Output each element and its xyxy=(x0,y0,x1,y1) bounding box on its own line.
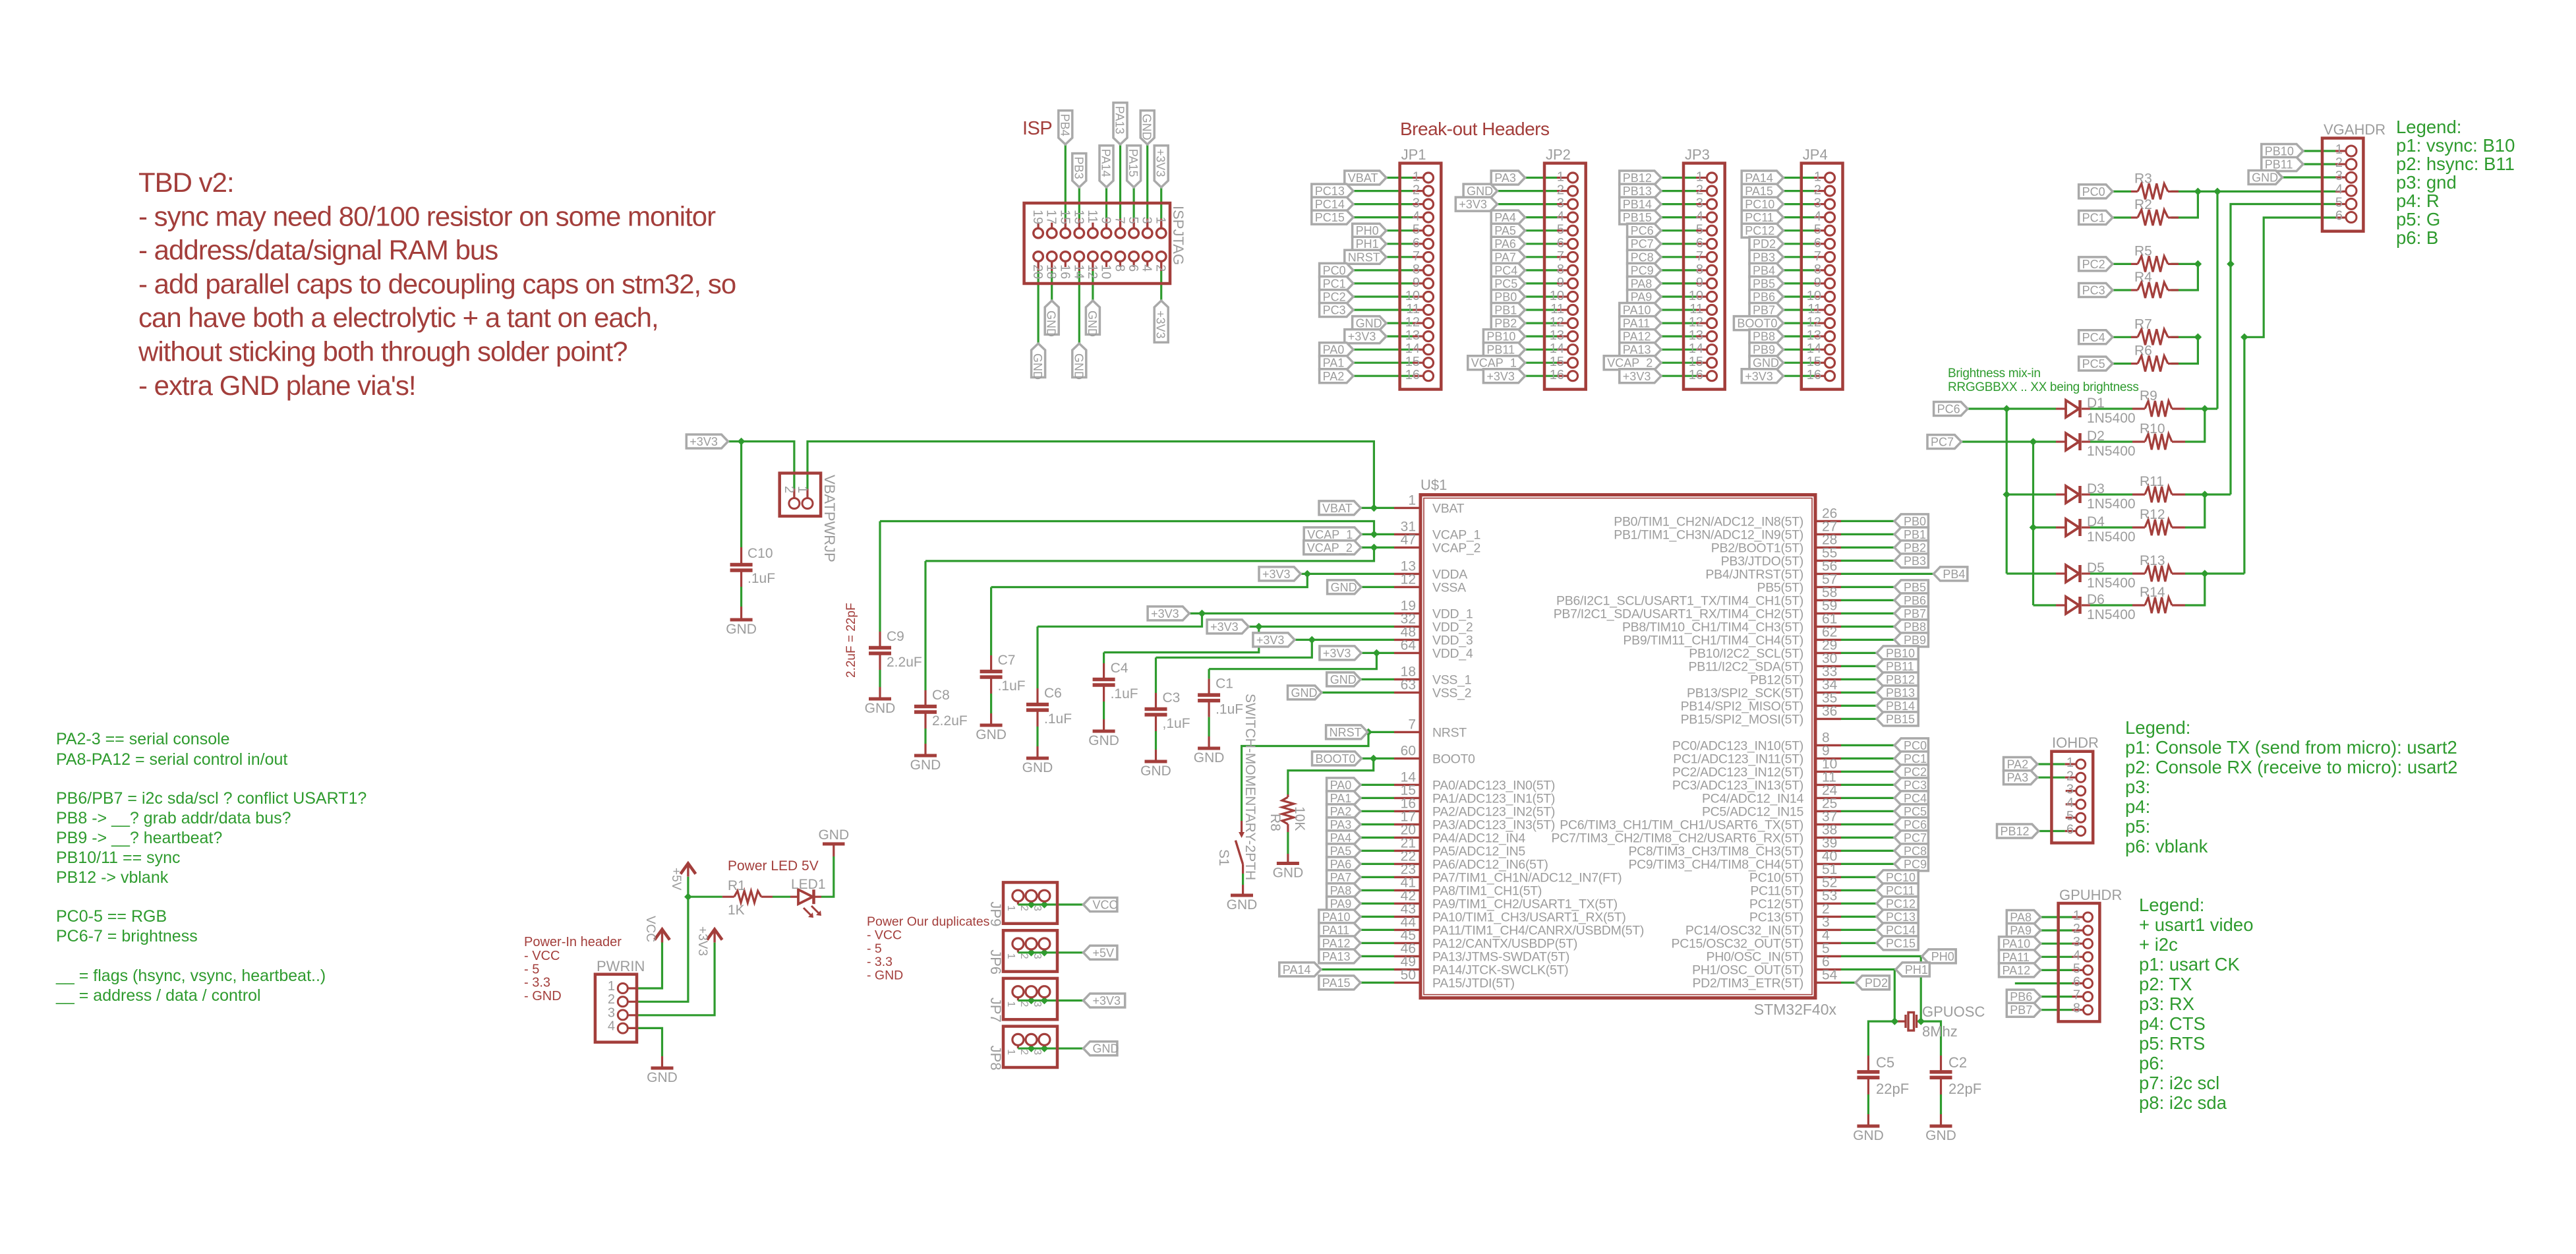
capacitor C7 .1uF xyxy=(980,653,1026,694)
wire PA8 to U$1 xyxy=(1361,889,1394,891)
svg-text:PB1: PB1 xyxy=(1904,528,1926,541)
svg-text:3: 3 xyxy=(1696,196,1703,211)
wire JP3 pin 11 net PA10 xyxy=(1661,309,1707,311)
svg-text:PA11: PA11 xyxy=(2003,951,2030,964)
svg-text:8: 8 xyxy=(1557,262,1564,277)
svg-text:JP4: JP4 xyxy=(1803,146,1828,163)
svg-text:PB13/SPI2_SCK(5T): PB13/SPI2_SCK(5T) xyxy=(1687,686,1803,700)
wire R5 output to junction xyxy=(2171,263,2198,265)
svg-text:GND: GND xyxy=(1093,1042,1119,1056)
net flag PB12 (U$1 right) xyxy=(1877,672,1918,686)
junctions JP6 pins xyxy=(1028,949,1049,957)
junction G channel tap xyxy=(2227,260,2235,268)
svg-text:JP7: JP7 xyxy=(987,998,1004,1023)
svg-text:+3V3: +3V3 xyxy=(1323,647,1351,660)
svg-text:5: 5 xyxy=(1126,217,1140,224)
svg-text:NRST: NRST xyxy=(1330,726,1362,739)
wire ISP pin 3 to GND flag xyxy=(1146,144,1148,228)
net flag PA2 (U$1) xyxy=(1327,804,1361,818)
net flag PC15 (JP1 pin 4) xyxy=(1312,210,1353,224)
junctions JP7 pins xyxy=(1028,997,1049,1005)
svg-text:10: 10 xyxy=(1550,289,1564,303)
svg-text:PC0-5 == RGB: PC0-5 == RGB xyxy=(56,907,167,926)
svg-text:PH1: PH1 xyxy=(1356,237,1379,251)
svg-text:p6: vblank: p6: vblank xyxy=(2125,836,2208,856)
svg-text:PA3: PA3 xyxy=(1330,818,1352,831)
junction PC7/D4 tap xyxy=(2030,523,2037,531)
svg-text:PA3: PA3 xyxy=(2007,771,2029,785)
svg-text:without sticking both through: without sticking both through solder poi… xyxy=(138,336,628,367)
junctions JP8 pins xyxy=(1028,1044,1049,1052)
svg-text:PC0/ADC123_IN10(5T): PC0/ADC123_IN10(5T) xyxy=(1672,738,1803,753)
net flag PA10 (JP3 pin 11) xyxy=(1620,303,1661,317)
svg-text:PA0: PA0 xyxy=(1330,779,1352,792)
svg-text:PC10: PC10 xyxy=(1886,871,1916,884)
svg-text:9: 9 xyxy=(1557,276,1564,290)
ground GND (S1) xyxy=(1227,885,1258,912)
svg-text:R5: R5 xyxy=(2134,243,2152,258)
net flag GND (ISP pin 14) xyxy=(1072,343,1086,380)
wire JP8 bus to GND xyxy=(1018,1045,1083,1048)
ground GND (C1) xyxy=(1194,736,1225,765)
net flag +3V3 (JP4 pin 16) xyxy=(1742,369,1783,383)
wire JP2 pin 4 net PA4 xyxy=(1525,216,1567,218)
net flag PB7 (U$1 right) xyxy=(1894,607,1928,620)
net flag PA13 (U$1) xyxy=(1319,949,1361,963)
wire PC4 to R7 xyxy=(2113,336,2131,338)
svg-text:14: 14 xyxy=(1689,342,1703,356)
svg-text:2: 2 xyxy=(1018,953,1030,959)
svg-text:GND: GND xyxy=(976,727,1007,742)
net flag PC8 (U$1 right) xyxy=(1894,844,1928,858)
svg-text:2: 2 xyxy=(608,992,615,1007)
svg-text:PD2: PD2 xyxy=(1753,237,1776,251)
svg-text:PB5: PB5 xyxy=(1904,581,1926,594)
net flag GND (VSSA) xyxy=(1328,580,1361,594)
svg-text:GND: GND xyxy=(1022,760,1053,775)
svg-text:6: 6 xyxy=(1413,236,1420,251)
svg-text:1: 1 xyxy=(608,979,615,994)
wire ISP pin 15 to PB4 flag xyxy=(1065,144,1067,228)
net flag +3V3 (battery jumper) xyxy=(686,434,728,448)
svg-text:C1: C1 xyxy=(1215,676,1233,692)
svg-text:3: 3 xyxy=(1814,196,1821,211)
wire R channel vertical (to diode mix R9/R10) xyxy=(2216,191,2218,409)
net flag PB12 (JP3 pin 1) xyxy=(1620,171,1661,185)
net flag PA9 (U$1) xyxy=(1327,897,1361,911)
wire JP4 pin 15 net GND xyxy=(1783,362,1825,364)
net flag PB13 (U$1 right) xyxy=(1877,686,1918,700)
pin names U$1 PB0-PB15 xyxy=(1554,506,1838,727)
svg-text:C9: C9 xyxy=(887,629,904,644)
svg-text:1: 1 xyxy=(1005,953,1016,959)
ground GND (C2) xyxy=(1925,1114,1956,1143)
wire ISP pin 2 to +3V3 flag xyxy=(1160,262,1162,301)
svg-text:p2: Console RX (receive to mic: p2: Console RX (receive to micro): usart… xyxy=(2125,757,2457,777)
wire JP4 pin 2 net PA15 xyxy=(1783,190,1825,192)
svg-text:JP6: JP6 xyxy=(987,949,1004,974)
net flag VBAT (U$1 pin 1) xyxy=(1319,501,1361,515)
wire JP4 pin 5 net PC12 xyxy=(1783,229,1825,231)
svg-text:2: 2 xyxy=(1413,183,1420,198)
wire JP1 pin 1 net VBAT xyxy=(1386,177,1423,179)
wire NRST net (flag to pin and down to S1) xyxy=(1242,732,1394,821)
wire JP2 pin 8 net PC4 xyxy=(1525,269,1567,271)
svg-text:PB6/PB7 = i2c sda/scl ? confli: PB6/PB7 = i2c sda/scl ? conflict USART1? xyxy=(56,789,366,808)
svg-text:R7: R7 xyxy=(2134,316,2152,332)
connector VBATPWRJP (battery power jumper) xyxy=(780,473,838,562)
wire R14 output joins R13 xyxy=(2185,574,2205,605)
diode D2 1N5400 xyxy=(2056,429,2136,459)
svg-text:PA15: PA15 xyxy=(1127,149,1140,177)
svg-text:2: 2 xyxy=(782,486,796,493)
svg-text:PC15/OSC32_OUT(5T): PC15/OSC32_OUT(5T) xyxy=(1672,936,1804,951)
svg-text:PB8/TIM10_CH1/TIM4_CH3(5T): PB8/TIM10_CH1/TIM4_CH3(5T) xyxy=(1622,620,1803,634)
svg-text:PB11: PB11 xyxy=(2265,158,2293,171)
wire +3V3 to VBATPWRJP pin 2 and C10 xyxy=(728,442,794,498)
svg-text:S1: S1 xyxy=(1216,849,1231,866)
svg-text:1: 1 xyxy=(1408,493,1416,508)
net flag PC5 (JP2 pin 9) xyxy=(1491,276,1525,290)
note Power Our duplicates (red) xyxy=(867,914,990,982)
connector GPUHDR (GPU header) xyxy=(2059,887,2122,1021)
svg-text:63: 63 xyxy=(1401,677,1416,692)
svg-text:PC3: PC3 xyxy=(1904,779,1927,792)
wire PB10 to VGAHDR pin 1 xyxy=(2303,150,2346,152)
svg-text:p2: hsync: B11: p2: hsync: B11 xyxy=(2396,154,2515,174)
svg-text:4: 4 xyxy=(1557,210,1564,224)
net flag +3V3 (JP1 pin 13) xyxy=(1345,330,1386,343)
connector JP7 (power jumper) xyxy=(987,978,1057,1023)
resistor R10 xyxy=(2132,421,2185,450)
svg-text:64: 64 xyxy=(1401,638,1417,653)
svg-text:PB9 -> __? heartbeat?: PB9 -> __? heartbeat? xyxy=(56,829,222,847)
svg-text:4: 4 xyxy=(1814,210,1821,224)
svg-text:1N5400: 1N5400 xyxy=(2087,607,2136,622)
pin numbers ISP top row 19..1 xyxy=(1030,210,1168,224)
svg-text:PB14/SPI2_MISO(5T): PB14/SPI2_MISO(5T) xyxy=(1681,699,1803,713)
wire PB14 from U$1 xyxy=(1841,705,1877,707)
svg-text:3: 3 xyxy=(608,1005,615,1020)
svg-text:PA8: PA8 xyxy=(1631,277,1653,290)
wire R6 output up to junction xyxy=(2171,337,2198,363)
wire JP4 pin 4 net PC11 xyxy=(1783,216,1825,218)
net flag PA11 (GPUHDR) xyxy=(1999,950,2041,964)
svg-text:GND: GND xyxy=(2252,171,2278,185)
svg-text:PB5(5T): PB5(5T) xyxy=(1757,580,1803,595)
svg-text:LED1: LED1 xyxy=(791,877,826,892)
svg-text:R10: R10 xyxy=(2140,421,2165,436)
net flag PC8 (JP3 pin 7) xyxy=(1627,250,1661,264)
svg-text:12: 12 xyxy=(1085,264,1099,279)
svg-text:VDDA: VDDA xyxy=(1432,567,1467,582)
junction VDD_4 +3V3 xyxy=(1373,649,1381,657)
svg-text:11: 11 xyxy=(1550,302,1564,316)
svg-text:15: 15 xyxy=(1689,355,1703,369)
net flag PC1 (U$1 right) xyxy=(1894,752,1928,765)
wire JP4 pin 14 net PB9 xyxy=(1783,349,1825,351)
svg-text:8: 8 xyxy=(1696,262,1703,277)
wire PB10 from U$1 xyxy=(1841,652,1877,654)
pin numbers IOHDR 1-6 xyxy=(2066,756,2074,837)
svg-text:+3V3: +3V3 xyxy=(1262,568,1291,581)
svg-text:PC5: PC5 xyxy=(1494,277,1517,290)
svg-text:D1: D1 xyxy=(2087,396,2105,411)
net flag PB12 (IOHDR) xyxy=(1997,824,2039,838)
svg-text:p3: gnd: p3: gnd xyxy=(2396,172,2457,193)
svg-text:- GND: - GND xyxy=(524,989,562,1003)
svg-text:PA7/TIM1_CH1N/ADC12_IN7(FT): PA7/TIM1_CH1N/ADC12_IN7(FT) xyxy=(1432,870,1622,885)
pin numbers PWRIN 1-4 xyxy=(608,979,615,1034)
svg-text:PB4/JNTRST(5T): PB4/JNTRST(5T) xyxy=(1705,567,1803,582)
net flag PA7 (JP2 pin 7) xyxy=(1491,250,1525,264)
net flag PB6 (GPUHDR) xyxy=(2006,990,2040,1003)
svg-text:Legend:: Legend: xyxy=(2396,117,2461,137)
wire JP2 pin 16 net +3V3 xyxy=(1525,375,1567,377)
svg-text:PA9/TIM1_CH2/USART1_TX(5T): PA9/TIM1_CH2/USART1_TX(5T) xyxy=(1432,897,1618,911)
svg-text:p6: B: p6: B xyxy=(2396,227,2438,248)
svg-text:Power Our duplicates: Power Our duplicates xyxy=(867,914,990,929)
svg-text:p5: RTS: p5: RTS xyxy=(2139,1033,2205,1054)
net flag PB3 (U$1 right) xyxy=(1894,554,1928,568)
svg-text:9: 9 xyxy=(1413,276,1420,290)
svg-text:47: 47 xyxy=(1401,532,1416,547)
capacitor C10 .1uF xyxy=(730,546,775,587)
svg-text:R2: R2 xyxy=(2134,197,2152,212)
svg-text:PA9: PA9 xyxy=(1631,291,1653,304)
net flag PC10 (U$1 right) xyxy=(1877,870,1918,884)
svg-text:PB12(5T): PB12(5T) xyxy=(1750,672,1803,687)
net flag PH1 xyxy=(1896,963,1929,976)
ground GND (C4) xyxy=(1088,719,1119,748)
net flag PA14 (ISP pin 9) xyxy=(1099,146,1114,187)
net flag PA4 (U$1) xyxy=(1327,831,1361,845)
net flag PA13 (JP3 pin 14) xyxy=(1620,343,1661,357)
resistor R3 xyxy=(2131,171,2179,199)
svg-text:can have both a electrolytic +: can have both a electrolytic + a tant on… xyxy=(138,302,659,333)
wire PWRIN pin3 to +3V3 xyxy=(628,943,715,1015)
svg-text:PH0: PH0 xyxy=(1356,224,1379,237)
svg-text:+3V3: +3V3 xyxy=(1154,311,1167,339)
svg-text:- extra GND plane via's!: - extra GND plane via's! xyxy=(138,370,416,401)
svg-text:PB3: PB3 xyxy=(1904,554,1926,568)
net flag BOOT0 (JP4 pin 12) xyxy=(1734,316,1783,330)
svg-text:12: 12 xyxy=(1405,315,1420,330)
wire VDD_4 net (C1 to U$1 pin 64) xyxy=(1209,653,1394,669)
svg-text:PA12: PA12 xyxy=(2003,964,2031,977)
svg-text:PA1: PA1 xyxy=(1323,357,1345,370)
net flag PA12 (GPUHDR) xyxy=(1999,963,2041,977)
net flag PC3 xyxy=(2079,284,2113,297)
net flag PB4 (JP4 pin 8) xyxy=(1749,263,1783,277)
supply VCC arrow xyxy=(643,916,670,943)
switch S1 SWITCH-MOMENTARY-2PTH xyxy=(1216,694,1258,880)
wire PC7 bus to D4 xyxy=(2034,526,2057,528)
svg-text:PA8/TIM1_CH1(5T): PA8/TIM1_CH1(5T) xyxy=(1432,883,1542,898)
svg-text:4: 4 xyxy=(608,1019,615,1034)
pin leads U$1 right side xyxy=(1815,521,1841,982)
svg-text:2: 2 xyxy=(2335,156,2343,170)
resistor R8 10K (BOOT0 pulldown) xyxy=(1268,794,1307,832)
wire JP6 bus to +5V xyxy=(1018,949,1083,953)
svg-text:PC3/ADC123_IN13(5T): PC3/ADC123_IN13(5T) xyxy=(1672,778,1803,792)
svg-text:D4: D4 xyxy=(2087,514,2105,529)
net flag PB4 (U$1 right) xyxy=(1933,567,1967,581)
wire PA7 to U$1 xyxy=(1361,876,1394,878)
svg-text:1N5400: 1N5400 xyxy=(2087,496,2136,512)
connector JP4 (break-out header) xyxy=(1801,146,1843,390)
pin names U$1 PA0-PA15 xyxy=(1401,769,1644,990)
wire JP1 pin 5 net PH0 xyxy=(1386,229,1423,231)
svg-text:6: 6 xyxy=(1814,236,1821,251)
wire VBAT net (VBATPWRJP pin1 to U$1 VBAT) xyxy=(807,442,1394,508)
svg-text:8: 8 xyxy=(1113,264,1127,272)
svg-text:PC6: PC6 xyxy=(1631,224,1654,237)
svg-text:C3: C3 xyxy=(1163,690,1181,705)
net flag PB7 (GPUHDR) xyxy=(2006,1003,2040,1017)
net flag PH0 (JP1 pin 5) xyxy=(1353,224,1386,237)
net flag PC7 (U$1 right) xyxy=(1894,831,1928,845)
net flag PA11 (JP3 pin 12) xyxy=(1620,316,1661,330)
net flag PB0 (U$1 right) xyxy=(1894,514,1928,528)
svg-text:PA10: PA10 xyxy=(1322,911,1351,924)
wire PB7 to GPUHDR pin 8 xyxy=(2041,1009,2084,1011)
svg-text:- VCC: - VCC xyxy=(524,949,560,963)
svg-text:+3V3: +3V3 xyxy=(1256,634,1285,647)
net flag PB6 (JP4 pin 10) xyxy=(1749,290,1783,304)
wire PC11 from U$1 xyxy=(1841,889,1877,891)
pin names U$1 left side (VBAT..BOOT0) xyxy=(1401,493,1480,766)
net flag PC4 (U$1 right) xyxy=(1894,791,1928,805)
wire PC6 bus to D5 xyxy=(2006,572,2056,574)
junction +5V / R1 xyxy=(684,893,692,901)
wire B channel vertical to VGAHDR pin 6 xyxy=(2244,218,2335,337)
svg-text:4: 4 xyxy=(1413,210,1420,224)
wire PA12 to U$1 xyxy=(1361,942,1394,944)
wire PB13 from U$1 xyxy=(1841,692,1877,694)
svg-text:PC12(5T): PC12(5T) xyxy=(1749,897,1803,911)
svg-text:R6: R6 xyxy=(2134,343,2152,359)
svg-text:PB4: PB4 xyxy=(1058,114,1071,136)
net flag GND (ISP pin 20) xyxy=(1031,343,1045,380)
svg-text:3: 3 xyxy=(1032,1049,1043,1055)
junction R3/R2 outputs xyxy=(2194,188,2202,196)
svg-text:PB14: PB14 xyxy=(1623,198,1652,211)
wire ISP pin 14 to GND flag xyxy=(1078,262,1080,343)
svg-text:PC11: PC11 xyxy=(1745,211,1774,224)
svg-text:+5V: +5V xyxy=(669,868,683,891)
capacitor C4 .1uF xyxy=(1093,661,1138,702)
svg-text:PB2/BOOT1(5T): PB2/BOOT1(5T) xyxy=(1711,541,1803,555)
net flag PC14 (U$1 right) xyxy=(1877,923,1918,937)
svg-text:6: 6 xyxy=(2335,209,2343,224)
svg-text:Legend:: Legend: xyxy=(2125,717,2190,738)
junction B channel tap xyxy=(2240,334,2248,342)
svg-text:,1uF: ,1uF xyxy=(1163,716,1190,731)
ground GND (LED1, inverted) xyxy=(818,827,849,844)
svg-text:PD2: PD2 xyxy=(1865,976,1888,990)
connector ISPJTAG (ISP header) xyxy=(1024,203,1186,284)
svg-text:PA4/ADC12_IN4: PA4/ADC12_IN4 xyxy=(1432,831,1525,845)
net flag PA1 (JP1 pin 15) xyxy=(1320,356,1353,370)
svg-text:9: 9 xyxy=(1814,276,1821,290)
svg-text:.1uF: .1uF xyxy=(1044,711,1072,727)
wire JP1 pin 15 net PA1 xyxy=(1353,362,1423,364)
svg-text:4: 4 xyxy=(1696,210,1703,224)
svg-text:1: 1 xyxy=(2335,142,2343,157)
wire PA0 to U$1 xyxy=(1361,784,1394,786)
note IOHDR legend (green) xyxy=(2125,717,2457,856)
net flag PB6 (U$1 right) xyxy=(1894,593,1928,607)
svg-text:+3V3: +3V3 xyxy=(1154,149,1167,177)
svg-text:PA11/TIM1_CH4/CANRX/USBDM(5T): PA11/TIM1_CH4/CANRX/USBDM(5T) xyxy=(1432,923,1644,938)
net flag +3V3 (VDD_2) xyxy=(1207,620,1248,634)
net flag PB3 (ISP pin 13) xyxy=(1072,154,1086,187)
wire R12 output joins R11 xyxy=(2185,494,2205,527)
svg-text:15: 15 xyxy=(1057,210,1072,224)
net flag PA14 (JP4 pin 1) xyxy=(1742,171,1783,185)
svg-text:4: 4 xyxy=(2335,182,2343,196)
net flag PC14 (JP1 pin 3) xyxy=(1312,197,1353,211)
wire PA10 to GPUHDR pin 3 xyxy=(2041,943,2084,945)
note pin assignment list (green) xyxy=(55,730,366,1005)
wire C5 to GND xyxy=(1867,1094,1869,1114)
svg-text:5: 5 xyxy=(2335,195,2343,210)
net flag PC11 (JP4 pin 4) xyxy=(1742,210,1783,224)
svg-text:1N5400: 1N5400 xyxy=(2087,444,2136,459)
wire PA1 to U$1 xyxy=(1361,797,1394,799)
wire JP1 pin 13 net +3V3 xyxy=(1386,336,1423,338)
svg-text:PA12: PA12 xyxy=(1322,937,1351,950)
wire B channel vertical (to diode mix R13/R14) xyxy=(2243,337,2245,574)
svg-text:PB8: PB8 xyxy=(1753,330,1775,343)
wire PB4 from U$1 xyxy=(1841,573,1933,575)
svg-text:PC4/ADC12_IN14: PC4/ADC12_IN14 xyxy=(1702,791,1804,806)
wire PA3 to IOHDR pin 2 xyxy=(2037,777,2076,779)
junction PC6/D1 tap xyxy=(2003,405,2010,413)
net flag PC12 (U$1 right) xyxy=(1877,897,1918,911)
svg-text:PC14/OSC32_IN(5T): PC14/OSC32_IN(5T) xyxy=(1685,923,1803,938)
wire JP1 pin 10 net PC2 xyxy=(1353,295,1423,297)
net flag PA3 (U$1) xyxy=(1327,818,1361,831)
svg-text:GND: GND xyxy=(1140,114,1154,140)
wire JP1 pin 2 net PC13 xyxy=(1353,190,1423,192)
svg-text:p3: RX: p3: RX xyxy=(2139,994,2194,1014)
wire D6 cathode to R14 xyxy=(2090,604,2132,606)
wire PC8 from U$1 xyxy=(1841,850,1894,852)
diode D3 1N5400 xyxy=(2056,481,2136,512)
svg-text:VCAP_2: VCAP_2 xyxy=(1307,541,1353,555)
svg-text:ISPJTAG: ISPJTAG xyxy=(1170,206,1186,265)
svg-text:GPUOSC: GPUOSC xyxy=(1922,1003,1985,1020)
svg-text:GND: GND xyxy=(1291,686,1318,700)
wire PWRIN pin2 to +5V xyxy=(628,897,688,1001)
svg-text:13: 13 xyxy=(1071,210,1086,224)
wire JP4 pin 9 net PB5 xyxy=(1783,282,1825,284)
net flag NRST (JP1 pin 7) xyxy=(1345,250,1386,264)
net flag PA9 (GPUHDR) xyxy=(2006,924,2040,938)
net flag GND (ISP pin 12) xyxy=(1086,301,1100,337)
wire JP2 pin 3 net +3V3 xyxy=(1498,203,1568,205)
svg-text:11: 11 xyxy=(1406,302,1420,316)
svg-text:6: 6 xyxy=(2066,823,2074,837)
net flag PB15 (U$1 right) xyxy=(1877,712,1918,726)
svg-text:PB15: PB15 xyxy=(1886,713,1915,726)
svg-text:GND: GND xyxy=(1330,673,1357,686)
net flag PC1 xyxy=(2079,211,2113,225)
wire PC0 from U$1 xyxy=(1841,744,1894,746)
svg-text:PA13: PA13 xyxy=(1322,950,1351,963)
